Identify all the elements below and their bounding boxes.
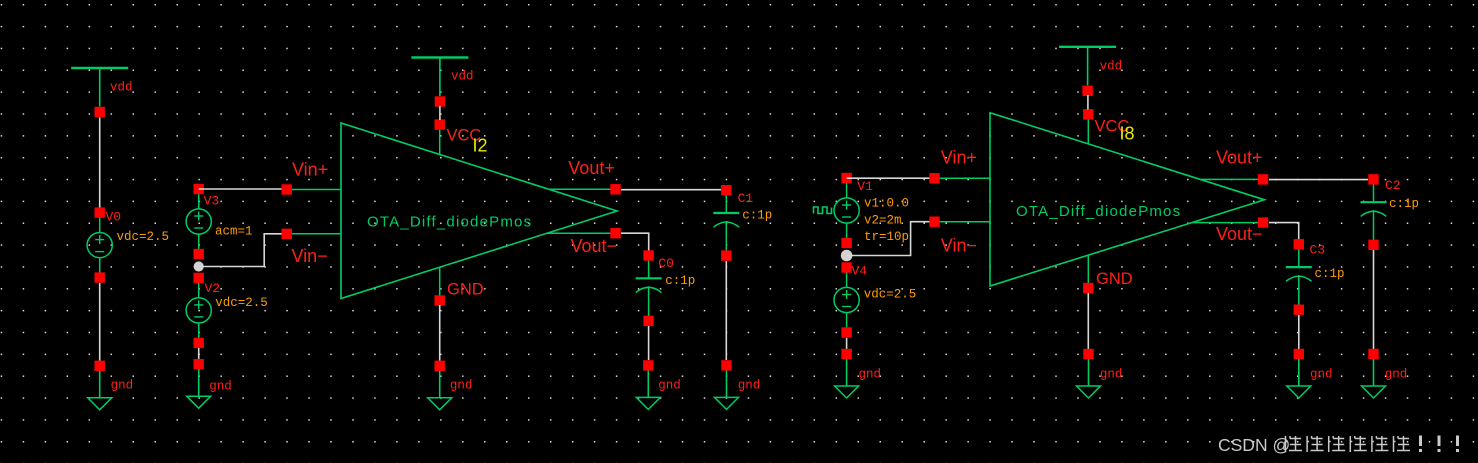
wire net Vin+ (V3 to op-amp I2)	[199, 188, 287, 190]
svg-text:GND: GND	[1096, 270, 1133, 288]
wire net Vout+ (op-amp I8 to C2)	[1269, 179, 1368, 181]
svg-text:V0: V0	[106, 210, 122, 225]
power symbol vdd (above op-amp I8)	[1059, 47, 1116, 96]
power symbol vdd (left supply rail)	[71, 68, 128, 117]
svg-text:Vout−: Vout−	[571, 236, 618, 256]
svg-text:V2: V2	[205, 281, 221, 296]
svg-text:gnd: gnd	[1100, 368, 1123, 382]
wire net Vout- (op-amp I8 to C3)	[1269, 223, 1299, 240]
wire net Vin- (junction to op-amp I2)	[199, 234, 287, 267]
svg-text:gnd: gnd	[658, 378, 681, 392]
wire GND pin to ground	[1087, 293, 1089, 349]
watermark CSDN @快请模拟老祖！！！	[1218, 435, 1459, 455]
power symbol vdd (above op-amp I2)	[411, 58, 468, 107]
wire C1 to ground	[725, 261, 727, 360]
svg-text:c:1p: c:1p	[1389, 197, 1419, 211]
voltage source V2	[186, 273, 211, 348]
svg-text:gnd: gnd	[209, 380, 232, 394]
ground (C3)	[1287, 349, 1311, 398]
pulse waveform glyph (V1)	[814, 207, 832, 214]
svg-text:gnd: gnd	[1385, 368, 1408, 382]
svg-text:vdc=2.5: vdc=2.5	[864, 287, 917, 301]
ground (V2)	[187, 359, 211, 408]
svg-text:vdc=2.5: vdc=2.5	[117, 230, 170, 244]
op-amp U1 (instance I2, OTA_Diff_diodePmos)	[282, 119, 621, 305]
op-amp U2 (instance I8, OTA_Diff_diodePmos)	[929, 109, 1268, 293]
wire V0 to ground	[99, 283, 101, 361]
svg-text:C1: C1	[738, 191, 754, 206]
voltage source V0	[87, 207, 112, 282]
wire GND pin to ground	[439, 305, 441, 361]
svg-text:I8: I8	[1120, 124, 1135, 144]
capacitor C2	[1361, 174, 1387, 250]
wire V4 to ground	[846, 338, 848, 349]
ground (V4)	[835, 349, 859, 398]
svg-text:gnd: gnd	[859, 368, 882, 382]
wire vdd to V0	[99, 118, 101, 209]
svg-text:Vin−: Vin−	[941, 235, 977, 255]
ground (C0)	[636, 360, 660, 409]
wire vdd to VCC pin	[1087, 95, 1089, 110]
svg-text:vdd: vdd	[451, 70, 474, 84]
voltage source V1 (pulse)	[834, 173, 859, 248]
junction node (V3/V2 midpoint, Vin- net)	[194, 261, 204, 271]
svg-text:vdd: vdd	[1100, 60, 1123, 74]
svg-text:Vin+: Vin+	[292, 159, 328, 179]
svg-text:gnd: gnd	[450, 378, 473, 392]
svg-text:acm=1: acm=1	[215, 225, 253, 239]
svg-text:OTA_Diff_diodePmos: OTA_Diff_diodePmos	[1016, 203, 1181, 220]
ground (C1)	[715, 360, 739, 409]
ground (op-amp I2 GND)	[428, 361, 452, 410]
voltage source V3	[186, 184, 211, 259]
wire net Vout- (op-amp I2 to C0)	[621, 233, 649, 250]
svg-text:GND: GND	[447, 280, 484, 298]
svg-text:V1: V1	[857, 179, 873, 194]
svg-text:v2=2m: v2=2m	[864, 213, 902, 227]
svg-text:CSDN @: CSDN @	[1218, 435, 1290, 455]
svg-text:I2: I2	[473, 136, 488, 156]
capacitor C0	[636, 250, 662, 326]
svg-text:vdd: vdd	[110, 81, 133, 95]
ground (op-amp I8 GND)	[1077, 349, 1101, 398]
capacitor C3	[1286, 239, 1312, 315]
svg-text:vdc=2.5: vdc=2.5	[215, 296, 268, 310]
svg-text:Vout+: Vout+	[1216, 148, 1263, 168]
svg-text:V4: V4	[852, 264, 868, 279]
svg-text:c:1p: c:1p	[742, 209, 772, 223]
wire C2 to ground	[1373, 250, 1375, 349]
wire vdd to VCC pin	[439, 106, 441, 120]
ground (left supply)	[88, 361, 112, 410]
wire C0 to ground	[648, 326, 650, 360]
svg-text:v1:0.0: v1:0.0	[864, 197, 909, 211]
svg-text:gnd: gnd	[1310, 368, 1333, 382]
wire net Vin- (junction to op-amp I8)	[847, 222, 935, 256]
ground (C2)	[1362, 349, 1386, 398]
svg-text:C3: C3	[1310, 243, 1326, 258]
voltage source V4	[834, 262, 859, 337]
svg-text:Vin−: Vin−	[292, 246, 328, 266]
svg-text:Vout−: Vout−	[1216, 224, 1263, 244]
svg-text:c:1p: c:1p	[665, 274, 695, 288]
svg-text:gnd: gnd	[111, 378, 134, 392]
svg-text:Vin+: Vin+	[941, 148, 977, 168]
svg-text:C2: C2	[1385, 178, 1401, 193]
svg-text:Vout+: Vout+	[568, 158, 615, 178]
wire net Vout+ (op-amp I2 to C1)	[621, 189, 721, 191]
svg-text:OTA_Diff_diodePmos: OTA_Diff_diodePmos	[367, 213, 532, 230]
svg-text:C0: C0	[658, 256, 674, 271]
wire C3 to ground	[1298, 315, 1300, 349]
svg-text:gnd: gnd	[738, 378, 761, 392]
svg-text:c:1p: c:1p	[1315, 267, 1345, 281]
junction node (V1/V4 midpoint, Vin- net)	[841, 250, 853, 262]
wire V2 to ground	[198, 348, 200, 360]
svg-text:V3: V3	[204, 194, 220, 209]
svg-text:tr=10p: tr=10p	[864, 230, 909, 244]
wire net Vin+ (V1 to op-amp I8)	[847, 177, 935, 179]
capacitor C1	[713, 185, 739, 261]
